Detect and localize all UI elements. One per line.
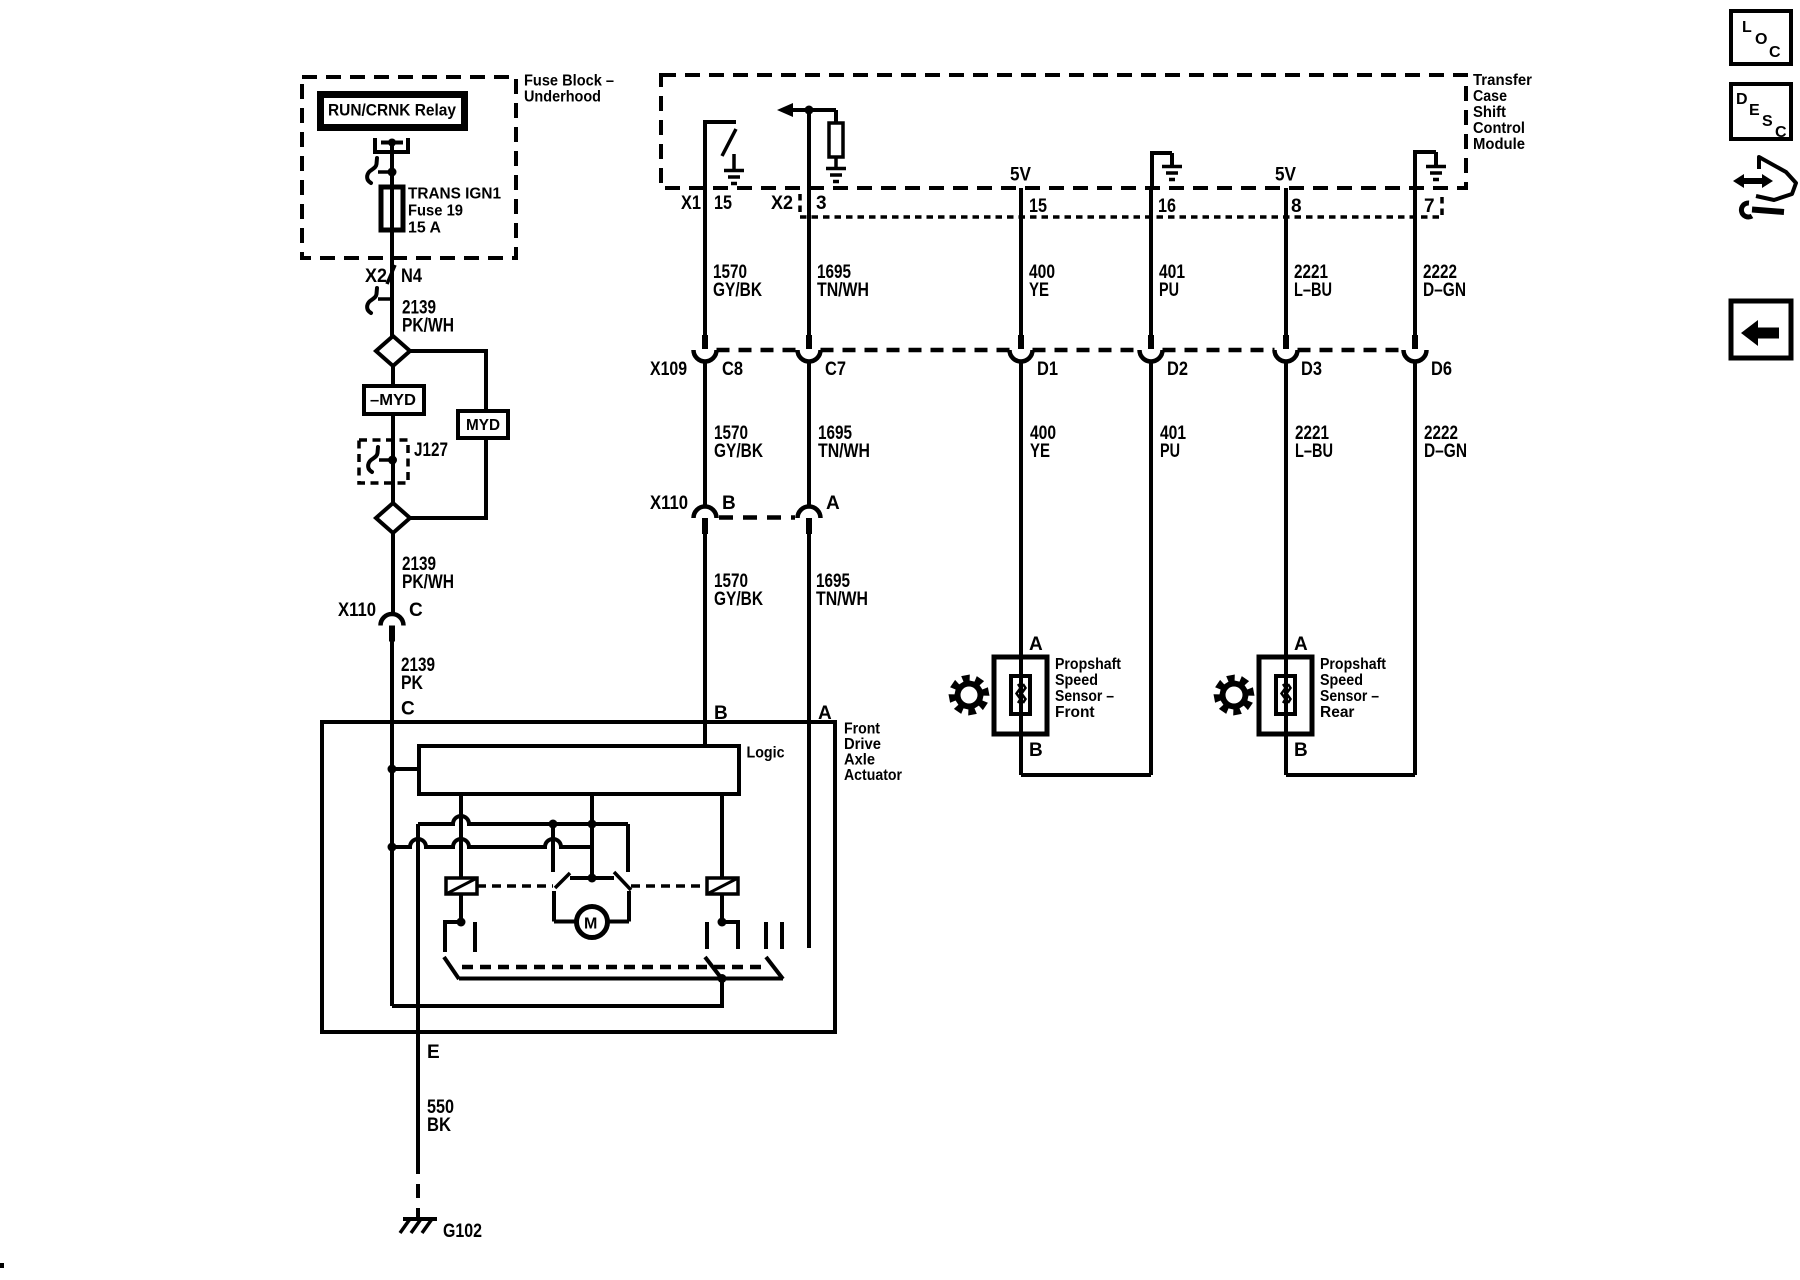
- svg-text:5V: 5V: [1010, 165, 1031, 186]
- connector X109 terminal at x=1021: [1018, 335, 1024, 349]
- svg-text:Front: Front: [1055, 704, 1095, 721]
- svg-text:D–GN: D–GN: [1423, 280, 1466, 301]
- wire branch to MYD: [410, 351, 486, 518]
- svg-text:X109: X109: [650, 359, 687, 380]
- wire 1570 GY/BK from module to X109: [703, 188, 707, 335]
- position switch mechanical dashed bar: [462, 965, 762, 970]
- svg-text:E: E: [1749, 102, 1760, 119]
- svg-text:Case: Case: [1473, 88, 1507, 105]
- svg-text:C: C: [409, 600, 423, 621]
- svg-text:C8: C8: [722, 359, 743, 380]
- svg-text:PK: PK: [401, 673, 423, 694]
- svg-text:X1: X1: [681, 193, 701, 214]
- pin E wire 550 BK to ground: [416, 1032, 420, 1160]
- svg-text:YE: YE: [1030, 441, 1050, 462]
- svg-text:D–GN: D–GN: [1424, 441, 1467, 462]
- svg-text:S: S: [1762, 113, 1773, 130]
- internal bus line 1 with hop: [418, 816, 628, 824]
- position switch common bar: [459, 977, 783, 981]
- svg-text:X110: X110: [650, 493, 688, 514]
- relay coil 1: [459, 794, 463, 878]
- svg-text:Sensor –: Sensor –: [1055, 688, 1114, 705]
- svg-text:Drive: Drive: [844, 736, 881, 753]
- terminal hook at relay output: [378, 170, 392, 174]
- svg-text:8: 8: [1291, 196, 1302, 217]
- wire 2221/2222 sensor bottom link: [1286, 773, 1415, 777]
- wire from relay through fuse: [390, 143, 394, 337]
- module: Transfer Case Shift Control Module dashed box: [661, 75, 1466, 188]
- svg-text:C: C: [1775, 124, 1787, 141]
- wire 2139 PK/WH label: [402, 298, 454, 337]
- relay RUN/CRNK Relay box: [321, 95, 465, 128]
- svg-text:7: 7: [1424, 196, 1435, 217]
- motor feed right contact: [626, 824, 630, 872]
- option box MYD: [458, 411, 508, 438]
- wire 1695 TN/WH from module to X109: [807, 188, 811, 335]
- svg-text:A: A: [1294, 634, 1308, 655]
- wire 400 YE below X109: [1019, 362, 1023, 776]
- wire C return to switch: [392, 978, 722, 1006]
- fuse TRANS IGN1 Fuse 19 15A: [381, 187, 403, 230]
- connector X109 terminal at x=705: [702, 335, 708, 349]
- svg-text:MYD: MYD: [466, 417, 500, 434]
- svg-text:D3: D3: [1301, 359, 1322, 380]
- motor M: [554, 920, 577, 924]
- svg-text:C7: C7: [825, 359, 846, 380]
- mechanical link coil1-motor: [477, 884, 553, 888]
- contact set 1: [445, 922, 461, 952]
- svg-text:A: A: [1029, 634, 1043, 655]
- 5V label pin 15: [1010, 165, 1031, 186]
- svg-text:TN/WH: TN/WH: [818, 441, 870, 462]
- ground (module internal, pin 7): [1415, 152, 1436, 188]
- ground (module internal, pin 16): [1152, 153, 1172, 188]
- svg-text:TRANS IGN1: TRANS IGN1: [408, 186, 501, 203]
- LOC nav box: [1731, 11, 1791, 64]
- wire 2221 L–BU below X109: [1284, 362, 1288, 776]
- svg-text:C: C: [1769, 44, 1781, 61]
- wire through J127: [391, 440, 395, 503]
- option box -MYD: [364, 386, 424, 414]
- svg-text:L–BU: L–BU: [1294, 280, 1332, 301]
- switch to ground at pin X1-15: [705, 122, 736, 188]
- svg-text:TN/WH: TN/WH: [817, 280, 869, 301]
- svg-text:X110: X110: [338, 600, 376, 621]
- connector X109 terminal at x=809: [806, 335, 812, 349]
- svg-text:Speed: Speed: [1055, 672, 1098, 689]
- internal bus line 2 with hops: [392, 839, 592, 847]
- svg-text:PK/WH: PK/WH: [402, 572, 454, 593]
- svg-text:X2: X2: [771, 193, 793, 214]
- ground (module internal, X1-15 switch): [724, 171, 744, 184]
- wire 1570 GY/BK below X109: [703, 362, 707, 508]
- svg-text:A: A: [826, 493, 840, 514]
- resistor (pull-up in module): [834, 110, 838, 123]
- Propshaft Speed Sensor - Rear: [1259, 657, 1312, 734]
- svg-text:PU: PU: [1160, 441, 1180, 462]
- motor center feed: [590, 794, 594, 878]
- svg-text:3: 3: [816, 193, 827, 214]
- Propshaft Speed Sensor - Front: [994, 657, 1047, 734]
- connector X110 pins B and A: [694, 507, 717, 518]
- svg-text:Front: Front: [844, 721, 880, 738]
- svg-text:G102: G102: [443, 1221, 482, 1242]
- splice/connector J127 dashed box: [359, 440, 408, 483]
- connector X110 pin C: [381, 614, 404, 626]
- connector X2 pin N4 (slash through wire): [387, 265, 395, 284]
- svg-text:GY/BK: GY/BK: [714, 589, 763, 610]
- svg-text:RUN/CRNK Relay: RUN/CRNK Relay: [328, 101, 456, 120]
- ground G102: [403, 1217, 437, 1221]
- svg-text:15 A: 15 A: [408, 220, 441, 237]
- svg-text:D6: D6: [1431, 359, 1452, 380]
- svg-text:B: B: [1294, 740, 1308, 761]
- svg-text:B: B: [722, 493, 736, 514]
- terminal hook below X2/N4: [378, 297, 392, 301]
- gear icon (Front sensor): [949, 675, 990, 716]
- svg-text:15: 15: [1029, 196, 1047, 217]
- terminal hook in J127: [379, 458, 392, 462]
- DESC nav box: [1731, 84, 1791, 139]
- svg-text:PU: PU: [1159, 280, 1179, 301]
- svg-text:Speed: Speed: [1320, 672, 1363, 689]
- connector X109 terminal at x=1286: [1283, 335, 1289, 349]
- pin labels X1 15 / X2 3 / 15 16 8 7: [681, 193, 1435, 217]
- svg-text:D1: D1: [1037, 359, 1058, 380]
- wire C to Logic: [392, 767, 419, 771]
- svg-text:L: L: [1742, 19, 1752, 36]
- connector X2 dotted outline under module: [800, 194, 1442, 217]
- connector X109 terminal at x=1415: [1412, 335, 1418, 349]
- svg-text:GY/BK: GY/BK: [713, 280, 762, 301]
- wire 400 YE from module to X109: [1019, 188, 1023, 335]
- Front Drive Axle Actuator box: [322, 722, 835, 1032]
- contact bars set 3: [764, 922, 768, 949]
- wire 401 PU from module to X109: [1149, 188, 1153, 335]
- svg-text:Transfer: Transfer: [1473, 72, 1532, 89]
- svg-text:Rear: Rear: [1320, 704, 1354, 721]
- wiring repair icon (double arrow, outline, wrench): [1742, 178, 1764, 184]
- svg-text:Sensor –: Sensor –: [1320, 688, 1379, 705]
- svg-text:N4: N4: [401, 266, 422, 287]
- Fuse Block label: [524, 73, 614, 106]
- wire 2222 D–GN from module to X109: [1413, 188, 1417, 335]
- contact set 2: [722, 922, 738, 949]
- svg-text:Axle: Axle: [844, 752, 875, 769]
- Logic box: [419, 746, 739, 794]
- svg-text:15: 15: [714, 193, 732, 214]
- svg-text:Propshaft: Propshaft: [1055, 656, 1121, 673]
- motor feed left contact: [551, 824, 555, 872]
- svg-text:Logic: Logic: [747, 745, 785, 762]
- back arrow nav box: [1731, 301, 1791, 358]
- wire 401 PU below X109: [1149, 362, 1153, 776]
- svg-text:Fuse 19: Fuse 19: [408, 203, 463, 220]
- svg-text:GY/BK: GY/BK: [714, 441, 763, 462]
- svg-text:D2: D2: [1167, 359, 1188, 380]
- svg-text:Shift: Shift: [1473, 104, 1506, 121]
- mechanical link motor-coil2: [631, 884, 707, 888]
- svg-text:YE: YE: [1029, 280, 1049, 301]
- wire 1570 GY/BK into actuator pin B: [703, 534, 707, 746]
- page corner mark: [0, 1263, 4, 1268]
- svg-text:L–BU: L–BU: [1295, 441, 1333, 462]
- svg-text:O: O: [1755, 31, 1767, 48]
- wire 1695 TN/WH below X109: [807, 362, 811, 508]
- svg-text:M: M: [584, 916, 597, 933]
- connector X109 terminal at x=1151: [1148, 335, 1154, 349]
- svg-text:Underhood: Underhood: [524, 89, 601, 106]
- svg-text:16: 16: [1158, 196, 1176, 217]
- svg-text:D: D: [1736, 91, 1748, 108]
- svg-text:Module: Module: [1473, 136, 1525, 153]
- svg-text:C: C: [401, 699, 415, 720]
- wire 2139 PK into actuator: [390, 641, 394, 1006]
- wire 1695 TN/WH into actuator pin A: [807, 534, 811, 948]
- svg-text:J127: J127: [414, 440, 448, 461]
- relay contact terminal bracket: [375, 138, 408, 152]
- svg-text:Propshaft: Propshaft: [1320, 656, 1386, 673]
- splice diamond S2: [376, 503, 410, 533]
- signal arrow + pull-up resistor at pin X2-3: [807, 110, 811, 188]
- relay coil 2: [720, 794, 724, 878]
- splice diamond S1: [376, 336, 410, 366]
- svg-text:B: B: [1029, 740, 1043, 761]
- ground (module internal, below resistor): [826, 169, 846, 182]
- wire 2222 D–GN below X109: [1413, 362, 1417, 776]
- 5V label pin 8: [1275, 165, 1296, 186]
- Fuse Block - Underhood dashed box: [302, 77, 516, 258]
- svg-text:Control: Control: [1473, 120, 1525, 137]
- wire 2221 L–BU from module to X109: [1284, 188, 1288, 335]
- wire 2139 PK/WH to X110: [391, 533, 395, 615]
- connector X109 dashed tie line: [717, 348, 798, 353]
- svg-text:X2: X2: [365, 266, 387, 287]
- ground lead wire to pin E: [416, 824, 420, 1032]
- position switch wipers (slashes): [444, 957, 459, 979]
- svg-text:PK/WH: PK/WH: [402, 316, 454, 337]
- svg-text:Actuator: Actuator: [844, 767, 902, 784]
- svg-text:TN/WH: TN/WH: [816, 589, 868, 610]
- svg-text:BK: BK: [427, 1115, 451, 1136]
- svg-text:E: E: [427, 1042, 440, 1063]
- gear icon (Rear sensor): [1214, 675, 1255, 716]
- svg-text:Fuse Block –: Fuse Block –: [524, 73, 614, 90]
- wire through -MYD: [391, 366, 395, 440]
- wire 400YE/401PU sensor bottom link: [1021, 773, 1151, 777]
- svg-text:5V: 5V: [1275, 165, 1296, 186]
- svg-text:–MYD: –MYD: [370, 392, 416, 409]
